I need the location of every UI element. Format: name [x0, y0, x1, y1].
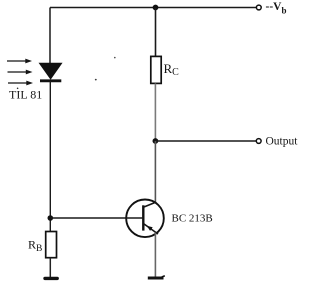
ground bottom emitter	[148, 277, 164, 280]
ground left	[45, 277, 57, 280]
ground bottom emitter tail	[162, 276, 165, 277]
transistor Q1 collector diagonal	[143, 202, 155, 207]
wire RB bottom	[49, 258, 51, 277]
transistor Q1 circle	[126, 200, 164, 238]
terminal output	[256, 139, 261, 144]
transistor Q1 base wire inside	[126, 217, 143, 219]
speck upper middle	[114, 57, 116, 59]
transistor Q1 emitter diagonal	[143, 224, 158, 235]
node base junction	[48, 215, 54, 221]
wire collector vertical	[154, 141, 156, 203]
svg-text:--Vb: --Vb	[266, 1, 287, 16]
svg-text:TIL 81: TIL 81	[9, 88, 42, 102]
node junction top (RC tap)	[153, 5, 159, 11]
wire emitter vertical	[154, 233, 156, 277]
wire base	[50, 217, 143, 219]
terminal Vb	[256, 5, 261, 10]
wire output	[155, 140, 256, 142]
wire RC top	[155, 8, 157, 57]
node output junction	[153, 138, 159, 144]
light arrow 2	[8, 70, 33, 75]
resistor RC	[151, 56, 161, 83]
svg-text:RC: RC	[164, 61, 180, 78]
speck above TIL label	[17, 88, 19, 90]
wire top rail	[50, 7, 256, 9]
photodiode D1 cathode bar	[40, 79, 61, 82]
svg-text:Output: Output	[266, 136, 299, 148]
wire left vertical (anode side)	[49, 8, 51, 64]
photodiode D1 TIL81 triangle	[40, 63, 62, 79]
transistor Q1 base bar	[142, 205, 144, 230]
speck near diode	[95, 79, 97, 81]
wire left vertical (cathode to base node and RB)	[49, 81, 51, 232]
resistor RB	[46, 232, 57, 258]
transistor Q1 emitter arrow (PNP)	[147, 226, 153, 231]
light arrow 3	[8, 81, 33, 86]
svg-text:BC 213B: BC 213B	[172, 213, 213, 225]
svg-text:RB: RB	[28, 238, 42, 255]
light arrow 1	[7, 59, 32, 64]
wire RC bottom to output node	[154, 83, 156, 141]
